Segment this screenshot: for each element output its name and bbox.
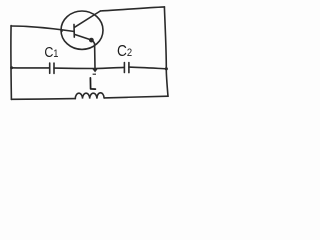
svg-text:C: C	[117, 42, 127, 60]
wire right rail	[164, 7, 168, 96]
wire emitter drop	[94, 44, 96, 69]
wire C2 right lead	[129, 67, 167, 69]
svg-text:C: C	[44, 44, 53, 60]
node left rail tee	[10, 66, 13, 69]
label C1	[44, 44, 58, 60]
capacitor C1	[50, 63, 54, 73]
wire bottom right	[104, 96, 168, 98]
capacitor C2	[124, 63, 128, 73]
wire base top-left	[11, 26, 74, 31]
node E arrowhead	[92, 68, 99, 75]
label L	[90, 78, 95, 89]
label C2	[117, 42, 132, 60]
wire bottom left	[11, 98, 75, 101]
wire C1 to node	[54, 67, 95, 69]
wire left rail	[10, 26, 13, 100]
inductor L	[75, 93, 104, 99]
node right rail	[165, 67, 168, 70]
wire top	[100, 7, 164, 11]
svg-text:2: 2	[127, 48, 132, 60]
wire C1 left lead	[11, 67, 49, 69]
transistor Q1	[60, 11, 103, 49]
svg-text:1: 1	[53, 48, 58, 60]
wire node to C2	[95, 67, 124, 68]
